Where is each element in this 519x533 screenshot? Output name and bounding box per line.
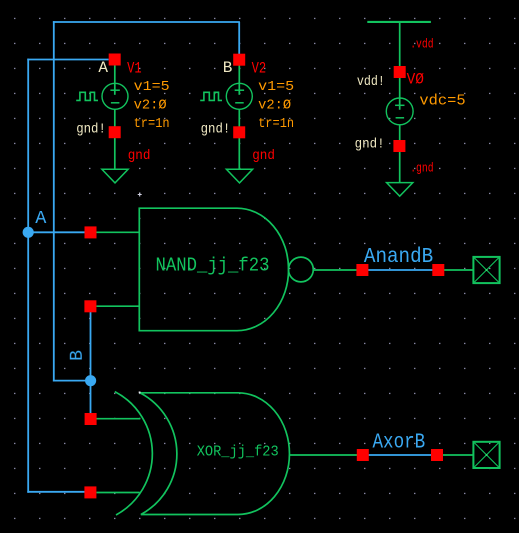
svg-text:gnd!: gnd! [201, 121, 231, 137]
svg-text:.vdd: .vdd [410, 37, 433, 52]
svg-text:gnd: gnd [128, 149, 151, 164]
svg-text:AxorB: AxorB [373, 431, 426, 454]
svg-text:B: B [68, 350, 88, 361]
svg-text:gnd!: gnd! [355, 136, 385, 152]
svg-text:B: B [223, 59, 233, 77]
svg-text:V1: V1 [127, 59, 141, 77]
svg-text:VØ: VØ [407, 70, 425, 88]
svg-text:NAND_jj_f23: NAND_jj_f23 [156, 255, 270, 277]
svg-text:v1=5: v1=5 [134, 79, 170, 95]
svg-text:vdd!: vdd! [357, 74, 385, 90]
svg-text:.gnd: .gnd [410, 161, 433, 176]
svg-text:v2:Ø: v2:Ø [134, 98, 167, 114]
svg-text:A: A [98, 59, 108, 77]
svg-text:A: A [35, 208, 47, 229]
svg-text:tr=1n: tr=1n [134, 116, 170, 132]
svg-text:gnd!: gnd! [76, 121, 106, 137]
svg-text:vdc=5: vdc=5 [419, 93, 465, 109]
svg-text:tr=1n: tr=1n [258, 116, 294, 132]
svg-text:AnandB: AnandB [364, 245, 433, 269]
svg-text:gnd: gnd [252, 149, 275, 164]
svg-text:v2:Ø: v2:Ø [258, 98, 291, 114]
svg-text:V2: V2 [252, 59, 267, 77]
svg-text:XOR_jj_f23: XOR_jj_f23 [197, 444, 279, 460]
svg-text:v1=5: v1=5 [258, 79, 294, 95]
